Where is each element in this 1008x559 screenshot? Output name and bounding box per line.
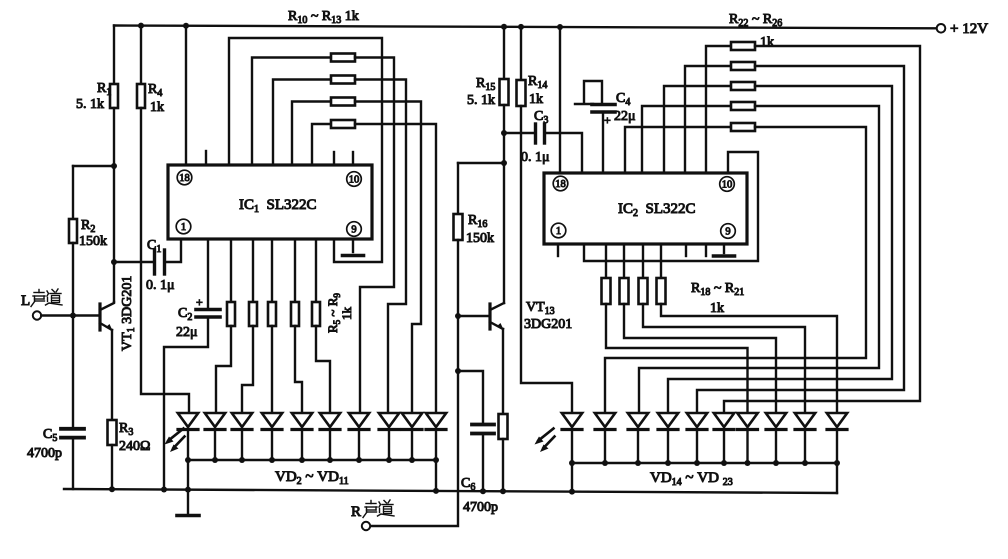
node C6-rail [480, 488, 486, 494]
svg-text:1k: 1k [339, 307, 354, 321]
wire IC1 to R10 [252, 58, 331, 166]
svg-text:1k: 1k [529, 92, 543, 107]
wire left diode bus [188, 459, 436, 461]
resistor R10 [331, 54, 355, 62]
wire R24 to VD17 [668, 86, 892, 413]
capacitor C1 [153, 250, 156, 274]
wire right bus return [836, 463, 838, 493]
svg-text:R18 ~ R21: R18 ~ R21 [691, 281, 744, 298]
wire input R riser [371, 371, 459, 526]
capacitor C4 lead [575, 103, 593, 105]
wire IC2 to R22 [706, 46, 731, 173]
transistor VT1 collector [100, 302, 114, 310]
node input R [455, 368, 461, 374]
node bus [239, 457, 245, 463]
node rail-R14 [518, 24, 524, 30]
diode VD7 [320, 413, 340, 427]
resistor R26 [731, 123, 755, 131]
node bus right [635, 460, 641, 466]
pin stub IC1 top nc1 [205, 151, 207, 165]
wire C4 to IC2 [602, 112, 604, 173]
capacitor C5 [61, 427, 84, 431]
wire IC1 to R11 [273, 80, 331, 166]
node bus right [694, 460, 700, 466]
svg-text:IC1 SL322C: IC1 SL322C [239, 197, 317, 215]
wire VD20 to bus [746, 430, 748, 464]
resistor R21 [657, 278, 666, 304]
wire VD21 to bus [775, 430, 777, 464]
wire R11 to VD9 [355, 80, 406, 414]
wire VD9 to bus [388, 430, 390, 461]
wire R9 to VD7 [316, 326, 330, 413]
node bus [327, 457, 333, 463]
wire VD19 to bus [723, 430, 725, 464]
wire VD6 to bus [301, 430, 303, 461]
svg-text:4700p: 4700p [27, 446, 62, 461]
node bus [185, 457, 191, 463]
diode VD3 [205, 413, 225, 427]
wire IC1 outer loop [229, 38, 382, 262]
svg-text:1k: 1k [710, 301, 724, 316]
svg-text:R3: R3 [119, 421, 133, 438]
wire rail to R4 [140, 26, 142, 84]
pin 1 IC2 [551, 223, 566, 238]
LED arrow left 2 [174, 437, 185, 449]
resistor R23 [731, 62, 755, 70]
svg-text:1k: 1k [760, 35, 774, 50]
wire VD22 to bus [804, 430, 806, 464]
wire R14 to VD14 [521, 106, 572, 413]
transistor VT1 base bar [98, 304, 101, 330]
wire input to base [41, 314, 100, 316]
resistor R20 [639, 278, 648, 304]
wire right bus to rail left [571, 463, 573, 492]
wire R3 to ground rail [111, 445, 113, 489]
diode VD8 [349, 413, 369, 427]
svg-text:C2: C2 [178, 306, 192, 323]
pin 18 IC2 [553, 176, 568, 191]
node right bus-rail [569, 489, 575, 495]
resistor R22 [731, 42, 755, 50]
pin stub IC2 bottom nc1 [557, 244, 559, 256]
wire IC2 wrap loop [584, 152, 758, 261]
node bus [386, 457, 392, 463]
wire R2 to input node [72, 243, 74, 316]
wire IC2 to R25 [642, 106, 731, 173]
resistor R15 [500, 79, 509, 105]
svg-text:VD2 ~ VD11: VD2 ~ VD11 [275, 469, 349, 487]
LED arrow right 2 [544, 437, 555, 449]
svg-text:150k: 150k [466, 231, 494, 246]
pin 9 IC2 [721, 224, 736, 239]
wire rail to R1 [113, 26, 115, 85]
wire IC1 pin18 to rail [185, 26, 187, 165]
diode VD20 [737, 413, 757, 427]
diode VD4 [232, 413, 252, 427]
wire C3 node to C3 [504, 132, 536, 134]
wire VD17 to bus [667, 430, 669, 464]
svg-text:22μ: 22μ [614, 109, 636, 124]
wire R19 to VD21 [624, 304, 776, 413]
svg-text:240Ω: 240Ω [119, 439, 150, 454]
node R16 tap [501, 160, 507, 166]
resistor R4 [137, 84, 145, 108]
node bus right [721, 460, 727, 466]
op-amp IC2 SL322C body [544, 173, 747, 244]
capacitor C4 plates [592, 103, 615, 107]
node C2-rail [161, 487, 167, 493]
node input L [70, 313, 76, 319]
node bus [356, 457, 362, 463]
node bus [299, 457, 305, 463]
wire input node to C6 [458, 371, 483, 423]
terminal input R [362, 522, 370, 530]
node bus [269, 457, 275, 463]
wire R26 to VD15 [605, 127, 866, 413]
node C1 tap [111, 259, 117, 265]
resistor R11 [331, 76, 355, 84]
label dao glyph [46, 289, 63, 305]
svg-text:1: 1 [181, 222, 186, 233]
wire emitter to R17 [502, 329, 504, 414]
node C3 tap [501, 130, 507, 136]
pin 18 IC1 [177, 170, 192, 185]
wire IC2 to R21 [660, 244, 662, 278]
svg-text:18: 18 [555, 179, 566, 190]
ground IC2 pin9 [714, 254, 735, 258]
resistor R12 [331, 98, 355, 106]
wire C3 node to R16 node [503, 133, 505, 163]
wire IC1 to R6 [252, 239, 254, 302]
node bus right [665, 460, 671, 466]
capacitor C2 [196, 308, 220, 312]
svg-text:5. 1k: 5. 1k [467, 93, 495, 108]
diode VD19 [714, 413, 734, 427]
svg-text:150k: 150k [79, 234, 107, 249]
svg-text:9: 9 [351, 225, 356, 236]
wire rail to R14 [520, 27, 522, 80]
node bus [212, 457, 218, 463]
resistor R2 [69, 219, 77, 243]
node rail-IC2pin18 [557, 24, 563, 30]
node base VT13 [455, 313, 461, 319]
svg-text:1k: 1k [150, 100, 164, 115]
svg-text:R10 ~ R13 1k: R10 ~ R13 1k [288, 9, 359, 26]
wire right diode bus [572, 462, 837, 464]
wire input node to C5 [72, 316, 74, 428]
wire IC1 to R5 [230, 239, 232, 302]
capacitor C3 [534, 124, 537, 143]
pin 9 IC1 [347, 222, 362, 237]
wire bus to ground rail left [187, 460, 189, 490]
diode VD14 [562, 413, 582, 427]
wire R12 to VD10 [355, 102, 421, 414]
wire R1 to node A [113, 108, 115, 166]
wire R25 to VD16 [639, 106, 879, 413]
pin stub IC1 top nc2 [333, 152, 335, 165]
node bus-rail right [433, 488, 439, 494]
resistor R13 [331, 120, 355, 128]
wire node A to R2 [73, 165, 114, 167]
wire IC2 to R20 [642, 244, 644, 278]
svg-text:R14: R14 [528, 74, 547, 91]
svg-text:+: + [196, 295, 203, 309]
terminal +12V [937, 24, 946, 33]
svg-text:IC2 SL322C: IC2 SL322C [618, 201, 696, 219]
node bus [409, 457, 415, 463]
diode VD23 [827, 413, 847, 427]
node bus right [834, 460, 840, 466]
wire base node down [457, 316, 459, 371]
wire to R2 top [72, 166, 74, 219]
LED arrow left 1 [169, 429, 184, 441]
wire IC2 to R26 [625, 127, 731, 173]
svg-text:18: 18 [179, 173, 190, 184]
label dao glyph right [378, 500, 395, 516]
pin stub IC2 bottom nc2 [685, 244, 687, 256]
wire to R16 [457, 163, 459, 214]
wire IC1 pin9 stub [352, 239, 354, 252]
transistor VT1 emitter [100, 323, 112, 330]
resistor R18 [602, 278, 611, 304]
wire collector to C1 [114, 261, 155, 263]
svg-text:C1: C1 [147, 238, 161, 255]
node rail-R4 [138, 23, 144, 29]
resistor R9 [312, 302, 320, 326]
wire C3 to IC2 pin17 [545, 133, 583, 173]
diode VD11 [426, 413, 446, 427]
wire R13 to VD11 [355, 124, 436, 413]
wire VD11 to bus [435, 430, 437, 461]
wire base node to base [458, 315, 490, 317]
wire R7 to VD5 [271, 326, 273, 413]
label sheng glyph right [363, 501, 377, 518]
wire R4 to VD2 [141, 108, 189, 413]
svg-text:+ 12V: + 12V [950, 21, 988, 37]
diode VD16 [628, 413, 648, 427]
diode VD17 [658, 413, 678, 427]
node bus right [569, 460, 575, 466]
op-amp IC1 SL322C body [168, 165, 372, 239]
wire VD14 to bus [571, 430, 573, 464]
diode VD5 [262, 413, 282, 427]
LED arrow right 1 [539, 429, 554, 441]
wire R15 to C3 node [503, 105, 505, 133]
resistor R16 [454, 214, 463, 240]
wire IC1 to R8 [294, 239, 296, 302]
wire ground rail [64, 489, 837, 493]
resistor R8 [291, 302, 299, 326]
wire IC2 to R18 [605, 244, 607, 278]
svg-text:5. 1k: 5. 1k [76, 97, 104, 112]
wire IC2 to R24 [664, 86, 731, 173]
svg-text:0. 1μ: 0. 1μ [146, 278, 175, 293]
ground main [177, 514, 199, 518]
wire VD7 to bus [329, 430, 331, 461]
pin 10 IC1 [347, 172, 362, 187]
wire bus to ground rail right [435, 460, 437, 491]
wire C2 to ground rail [164, 317, 208, 490]
wire VD15 to bus [604, 430, 606, 464]
svg-text:R22 ~ R26: R22 ~ R26 [729, 12, 782, 29]
wire R23 to VD18 [697, 66, 904, 413]
svg-text:10: 10 [722, 180, 733, 191]
node bus [433, 457, 439, 463]
ground IC1 pin9 [343, 254, 364, 258]
svg-text:VT1 3DG201: VT1 3DG201 [120, 276, 137, 351]
wire R16 to base node [457, 240, 459, 316]
wire rail to R15 [503, 27, 505, 79]
diode VD9 [379, 413, 399, 427]
wire node A to collector VT1 [113, 166, 115, 302]
node bus right [745, 460, 751, 466]
resistor R24 [731, 82, 755, 90]
node R3-rail [109, 486, 115, 492]
svg-text:VT13: VT13 [526, 300, 555, 317]
wire R8 to VD6 [295, 326, 302, 413]
wire C5 to ground rail [72, 438, 74, 489]
svg-text:R15: R15 [476, 76, 495, 93]
svg-text:C5: C5 [43, 427, 57, 444]
diode VD10 [402, 413, 422, 427]
ground main stem [187, 490, 189, 514]
node bus-rail left [185, 487, 191, 493]
resistor R25 [731, 102, 755, 110]
diode VD6 [292, 413, 312, 427]
svg-text:0. 1μ: 0. 1μ [521, 150, 550, 165]
wire VD23 to bus [836, 430, 838, 464]
wire IC1 to R9 [315, 239, 317, 302]
resistor R3 [108, 420, 117, 445]
node rail-IC1pin18 [183, 23, 189, 29]
wire VD2 to bus [187, 430, 189, 461]
pin 1 IC1 [176, 219, 191, 234]
wire VD3 to bus [214, 430, 216, 461]
diode VD18 [687, 413, 707, 427]
wire C6 to ground rail [482, 434, 484, 492]
svg-text:4700p: 4700p [463, 500, 498, 515]
svg-text:9: 9 [725, 227, 730, 238]
transistor VT13 emitter arrow [497, 323, 504, 330]
pin stub IC1 top nc3 [352, 152, 354, 165]
wire IC2 pin9 stub [723, 244, 725, 253]
resistor R1 [110, 84, 118, 108]
svg-text:+: + [604, 113, 611, 127]
svg-text:R: R [351, 504, 361, 520]
diode VD2 [178, 413, 198, 427]
capacitor C4 neg plate [584, 81, 602, 103]
node bus right [602, 460, 608, 466]
pin 10 IC2 [720, 177, 735, 192]
wire to collector VT13 [503, 163, 505, 303]
wire emitter to R3 [111, 330, 113, 420]
wire R22 to VD19 [724, 46, 920, 413]
wire C1 to IC1 pin1 [165, 239, 182, 262]
label sheng glyph [31, 290, 45, 307]
wire R17 to ground rail [502, 439, 504, 491]
wire IC2 to R19 [623, 244, 625, 278]
svg-text:10: 10 [349, 175, 360, 186]
wire R21 to VD23 [661, 304, 837, 413]
wire R16 node left [458, 162, 504, 164]
transistor VT13 collector [490, 303, 504, 310]
node bus right [773, 460, 779, 466]
transistor VT1 emitter arrow [106, 324, 113, 331]
wire VD5 to bus [271, 430, 273, 461]
resistor R19 [620, 278, 629, 304]
diode VD15 [595, 413, 615, 427]
resistor R7 [268, 302, 276, 326]
capacitor C6 [472, 423, 494, 427]
diode VD21 [766, 413, 786, 427]
svg-text:C3: C3 [534, 109, 548, 126]
wire R20 to VD22 [643, 304, 805, 413]
wire R10 to VD8 [355, 58, 394, 414]
diode VD22 [795, 413, 815, 427]
wire IC1 to R12 [292, 102, 331, 166]
resistor R17 [499, 414, 508, 439]
wire R6 to VD4 [242, 326, 253, 413]
svg-text:3DG201: 3DG201 [524, 317, 572, 332]
node A junction [111, 163, 117, 169]
transistor VT13 base bar [488, 304, 491, 329]
resistor R5 [227, 302, 235, 326]
svg-text:R16: R16 [468, 213, 487, 230]
node R17-rail [500, 488, 506, 494]
node bus right [802, 460, 808, 466]
resistor R14 [517, 80, 526, 106]
transistor VT13 emitter [490, 322, 503, 329]
svg-text:C4: C4 [616, 91, 630, 108]
svg-text:VD14 ~ VD 23: VD14 ~ VD 23 [650, 470, 733, 488]
wire IC2 to R23 [685, 66, 731, 173]
node rail-R15 [501, 24, 507, 30]
svg-text:22μ: 22μ [176, 325, 198, 340]
wire R18 to VD20 [606, 304, 748, 413]
pin stub IC2 bottom nc3 [705, 244, 707, 256]
wire VD16 to bus [637, 430, 639, 464]
wire VD4 to bus [241, 430, 243, 461]
wire R5 to VD3 [216, 326, 231, 413]
terminal input L [33, 311, 41, 319]
wire VD18 to bus [696, 430, 698, 464]
wire +12V top rail [114, 26, 936, 29]
svg-text:C6: C6 [461, 476, 475, 493]
wire VD8 to bus [358, 430, 360, 461]
svg-text:R4: R4 [148, 82, 162, 99]
wire IC1 to R7 [271, 239, 273, 302]
svg-text:L: L [21, 293, 30, 309]
wire VD10 to bus [411, 430, 413, 461]
svg-text:R2: R2 [81, 218, 95, 235]
wire IC1 to C2 [207, 239, 209, 308]
wire IC2 pin18 to rail [559, 27, 561, 173]
wire IC1 to R13 [312, 124, 331, 165]
resistor R6 [249, 302, 257, 326]
svg-text:1: 1 [556, 226, 561, 237]
